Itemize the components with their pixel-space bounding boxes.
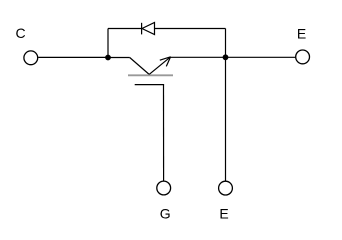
node junction dot at collector xyxy=(105,55,111,61)
terminal G xyxy=(157,181,171,195)
terminal E bottom xyxy=(219,181,233,195)
wire top right down to node2 xyxy=(225,29,227,58)
wire node2 down to terminal E bottom xyxy=(225,57,227,181)
svg-text:E: E xyxy=(297,26,306,42)
wire top left to diode cathode xyxy=(108,28,142,30)
svg-text:C: C xyxy=(15,25,25,41)
IGBT Q1 emitter arrow xyxy=(149,57,170,75)
wire node2 to terminal E xyxy=(226,56,296,58)
IGBT Q1 collector slope xyxy=(130,58,150,75)
wire node1 up to diode branch xyxy=(107,29,109,58)
IGBT Q1 body bar xyxy=(128,74,173,76)
wire gate down to terminal G xyxy=(163,85,165,182)
terminal C xyxy=(24,51,38,65)
node junction dot at emitter xyxy=(223,54,229,60)
IGBT Q1 gate plate xyxy=(135,84,164,86)
wire emitter to node2 xyxy=(171,56,226,58)
svg-text:E: E xyxy=(219,205,228,221)
IGBT Q1 collector wire xyxy=(108,57,130,59)
svg-text:G: G xyxy=(160,206,171,222)
diode D1 (freewheeling, cathode left) xyxy=(142,22,155,34)
wire C to node1 xyxy=(38,56,108,58)
wire diode anode to top right xyxy=(155,28,226,30)
terminal E top xyxy=(296,50,310,64)
